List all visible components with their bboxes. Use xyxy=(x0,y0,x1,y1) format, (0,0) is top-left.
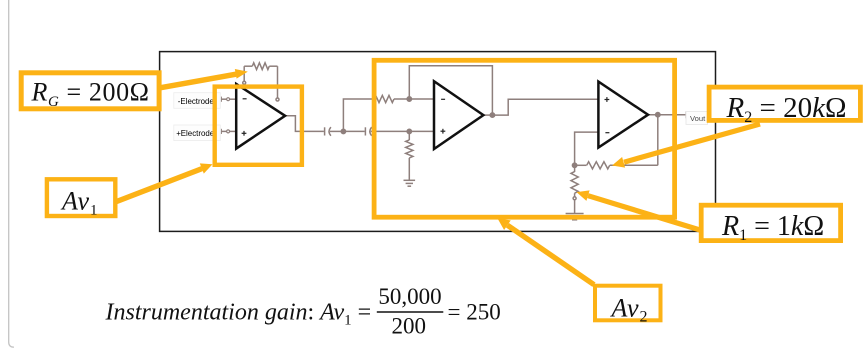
resistor R2 xyxy=(575,162,658,169)
node Vout label xyxy=(686,112,708,125)
node J2 junction xyxy=(407,97,411,101)
capacitor C2 xyxy=(365,127,409,136)
node +Electrode lead xyxy=(221,129,236,134)
capacitor C1 xyxy=(325,127,344,136)
arrow Av1 xyxy=(114,163,213,202)
wire J3 to op-amp2 noninverting input xyxy=(409,130,434,132)
label box RG xyxy=(21,73,159,110)
svg-text:R2 = 20kΩ: R2 = 20kΩ xyxy=(726,92,847,126)
wire J1 up to R4 xyxy=(343,99,373,131)
svg-text:+Electrode: +Electrode xyxy=(176,129,215,138)
resistor R5 to ground xyxy=(406,131,413,180)
ground G1 xyxy=(404,180,416,186)
wire J2 to op-amp2 inverting input xyxy=(409,98,434,100)
page bottom edge line xyxy=(13,346,700,348)
node -Electrode lead xyxy=(221,97,236,102)
node J6 junction xyxy=(656,113,660,117)
svg-text:200: 200 xyxy=(391,313,426,338)
arrow RG xyxy=(160,69,248,88)
svg-text:= 250: = 250 xyxy=(448,299,501,324)
wire op-amp1 output xyxy=(285,116,324,132)
resistor R4 input xyxy=(374,95,409,102)
wire op-amp2 to op-amp3 xyxy=(492,99,598,115)
highlight box Av1 stage xyxy=(215,87,302,165)
svg-text:R1 = 1kΩ: R1 = 1kΩ xyxy=(721,211,824,244)
formula instrumentation gain xyxy=(105,284,501,339)
node -Electrode label xyxy=(174,93,221,109)
node J1 junction xyxy=(341,129,345,133)
ground G2 xyxy=(566,214,584,220)
highlight box Av2 stage xyxy=(374,60,674,217)
wire op-amp2 output xyxy=(483,114,492,116)
wire op-amp2 feedback loop xyxy=(409,66,492,115)
node J4 junction xyxy=(490,113,494,117)
resistor RG xyxy=(243,63,279,101)
node +Electrode label xyxy=(174,125,221,141)
resistor R1 xyxy=(571,165,578,213)
op-amp U1 xyxy=(236,84,285,149)
arrow Av2 xyxy=(498,218,595,284)
wire op-amp3 output xyxy=(648,114,686,116)
node J3 junction xyxy=(407,129,411,133)
label box R1 xyxy=(701,205,840,244)
svg-text:-Electrode: -Electrode xyxy=(178,97,215,106)
label box Av2 xyxy=(595,286,661,326)
wire C1 to C2 xyxy=(343,130,364,132)
op-amp U3 xyxy=(598,82,648,148)
label box Av1 xyxy=(47,179,115,218)
svg-text:Vout: Vout xyxy=(690,114,706,123)
schematic outer border xyxy=(160,52,716,232)
op-amp U2 xyxy=(434,81,483,149)
arrow R2 xyxy=(612,124,760,168)
node J5 junction xyxy=(572,163,576,167)
arrow R1 xyxy=(577,190,701,230)
svg-text:50,000: 50,000 xyxy=(378,284,441,309)
wire R2 up to output xyxy=(657,115,659,166)
wire op-amp3 inverting input xyxy=(575,132,599,165)
label box R2 xyxy=(709,87,860,126)
svg-text:Instrumentation gain: Av1 =: Instrumentation gain: Av1 = xyxy=(105,299,372,328)
page left edge line xyxy=(9,0,14,347)
